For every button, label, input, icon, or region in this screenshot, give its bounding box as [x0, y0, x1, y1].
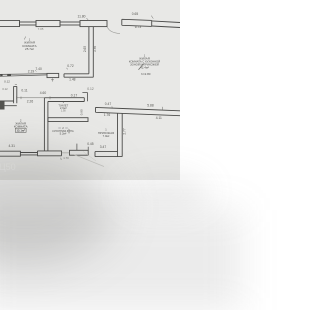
svg-text:3.47: 3.47	[100, 145, 107, 149]
svg-text:0.90: 0.90	[80, 109, 84, 115]
svg-text:7.05: 7.05	[38, 27, 44, 31]
svg-text:0.45: 0.45	[87, 142, 94, 146]
svg-text:0.17: 0.17	[68, 128, 71, 133]
svg-text:6.73: 6.73	[135, 25, 142, 29]
svg-text:0.11: 0.11	[21, 89, 27, 93]
svg-text:11.80: 11.80	[77, 14, 85, 18]
svg-text:2.19: 2.19	[28, 70, 35, 74]
svg-text:1.76: 1.76	[104, 113, 111, 117]
svg-text:3: 3	[63, 100, 65, 104]
svg-text:0.65: 0.65	[132, 12, 139, 16]
svg-text:0.47: 0.47	[105, 102, 112, 106]
svg-text:h=2.80: h=2.80	[141, 72, 151, 76]
svg-text:2.65: 2.65	[93, 46, 97, 52]
svg-text:0.12: 0.12	[4, 80, 10, 84]
svg-text:5.88: 5.88	[147, 103, 154, 107]
svg-text:4.31: 4.31	[8, 144, 15, 148]
svg-text:2.77: 2.77	[123, 128, 127, 134]
svg-text:1.90: 1.90	[61, 110, 66, 113]
svg-text:25.7м²: 25.7м²	[25, 47, 34, 51]
svg-text:2.65: 2.65	[83, 46, 87, 52]
svg-text:0.12: 0.12	[2, 87, 8, 91]
svg-text:5.2м²: 5.2м²	[60, 132, 67, 136]
svg-text:7.0м²: 7.0м²	[103, 134, 110, 138]
svg-text:1.70: 1.70	[63, 156, 69, 160]
svg-text:1.48: 1.48	[69, 78, 76, 82]
svg-text:4.11: 4.11	[156, 116, 162, 120]
svg-text:0.17: 0.17	[71, 94, 78, 98]
svg-text:7.40: 7.40	[35, 67, 42, 71]
svg-text:0.12: 0.12	[87, 87, 94, 91]
svg-text:4.60: 4.60	[40, 91, 47, 95]
svg-text:2.26: 2.26	[27, 99, 34, 103]
svg-text:Ц50: Ц50	[0, 162, 16, 172]
svg-text:0.72: 0.72	[67, 64, 74, 68]
svg-text:13.1м²: 13.1м²	[16, 129, 25, 133]
